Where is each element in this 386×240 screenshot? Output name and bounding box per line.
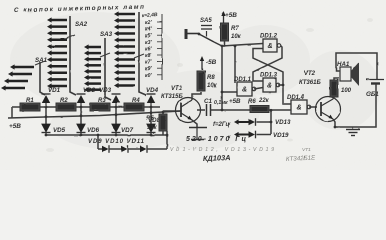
svg-text:&: & <box>242 87 247 94</box>
svg-text:520-1070 Гц: 520-1070 Гц <box>186 136 246 143</box>
wire: DD1.2 out to DD1.3 in <box>253 46 282 82</box>
diode VD19 <box>249 131 256 139</box>
switch SA3 pole wire <box>105 38 111 100</box>
svg-text:&: & <box>297 105 302 112</box>
svg-text:VD19: VD19 <box>273 132 289 139</box>
wire: junction down to C1-R6 node <box>221 46 223 110</box>
wire: R1-R2 segment <box>40 106 56 108</box>
input arrow to VD13 <box>234 119 249 124</box>
svg-text:22к: 22к <box>258 98 270 104</box>
resistor R2 <box>56 103 76 111</box>
wire: base lead VT1 <box>163 110 181 112</box>
diode VD1 <box>42 94 51 107</box>
wire: R1 to bus drop <box>11 107 13 118</box>
svg-text:R8: R8 <box>207 75 215 81</box>
wire: DD1.4 out to VT2 base <box>309 106 317 108</box>
diode VD4 <box>147 94 156 107</box>
svg-text:DD1.4: DD1.4 <box>287 95 305 101</box>
svg-text:100: 100 <box>341 88 352 94</box>
switch SA3 wiper tick <box>100 53 110 57</box>
logic gate DD1.1 <box>237 82 256 96</box>
diode VD9 <box>98 148 102 150</box>
svg-text:R4: R4 <box>132 98 140 104</box>
svg-text:КТ315Б: КТ315Б <box>161 94 183 100</box>
wire: VT1 collector node to C1 <box>197 109 205 111</box>
svg-text:f=2Гц: f=2Гц <box>213 122 230 128</box>
svg-text:DD1.2: DD1.2 <box>260 34 278 40</box>
diode VD7 <box>112 124 121 135</box>
wire: R9 top to speaker <box>334 78 339 80</box>
diode VD3 <box>112 94 121 107</box>
svg-text:к0': к0' <box>145 73 152 79</box>
diode VD10 <box>109 148 121 150</box>
svg-text:-5В: -5В <box>206 59 217 66</box>
svg-text:VD13: VD13 <box>275 119 291 126</box>
transistor VT1 <box>176 98 201 123</box>
svg-text:+5В: +5В <box>225 12 237 19</box>
svg-text:10к: 10к <box>231 34 242 40</box>
svg-text:VD7: VD7 <box>121 127 134 134</box>
svg-text:С1: С1 <box>204 98 212 105</box>
svg-text:&: & <box>267 83 272 90</box>
svg-text:КТ361Б: КТ361Б <box>299 80 321 86</box>
diode VD2 <box>77 94 86 107</box>
wire: VD19 to node <box>257 134 272 136</box>
wire: R7 bottom <box>222 41 225 46</box>
diode VD13 <box>249 118 256 126</box>
logic gate DD1.2 <box>263 39 281 52</box>
wire: VD11 to R5 branch <box>147 148 167 150</box>
svg-text:VD9 VD10 VD11: VD9 VD10 VD11 <box>88 139 145 145</box>
svg-text:VD1: VD1 <box>48 87 61 94</box>
push button SA5 <box>199 26 214 43</box>
svg-text:VD5: VD5 <box>53 127 66 134</box>
resistor R9 <box>330 80 338 97</box>
svg-text:к5': к5' <box>145 33 152 39</box>
wire: battery minus to emitter rail <box>335 84 376 127</box>
resistor R5 <box>159 114 167 131</box>
switch SA1 contact arrows <box>1 64 34 90</box>
svg-text:к6': к6' <box>145 46 152 52</box>
transistor VT2 <box>316 97 341 122</box>
input arrow to VD19 <box>234 132 249 137</box>
switch SA4 wiper tick <box>134 54 144 58</box>
speaker HA1 <box>340 62 359 86</box>
svg-text:51к: 51к <box>147 125 158 131</box>
wire: VD1 node drop to VD5 <box>45 107 47 124</box>
svg-text:SA2: SA2 <box>75 21 88 28</box>
svg-text:DD1.1: DD1.1 <box>234 77 252 83</box>
resistor R8 <box>197 71 205 91</box>
diode VD6 <box>77 124 86 135</box>
svg-text:VD6: VD6 <box>87 127 100 134</box>
wire: junction to DD1.2 input <box>222 44 263 47</box>
svg-text:DD1.3: DD1.3 <box>260 73 278 79</box>
wire: lower diode bus <box>46 134 167 136</box>
switch SA1 pole wire <box>40 62 45 95</box>
svg-text:к3': к3' <box>145 40 152 46</box>
wire: DD1.3 out to DD1.2 in <box>253 49 283 86</box>
switch SA3 contact arrows <box>84 44 101 92</box>
wire: VD4 node drop to VD8 <box>150 107 152 124</box>
battery GB1 <box>366 80 384 84</box>
wire: R6 to DD1.4 input <box>269 109 291 111</box>
resistor R3 <box>90 103 110 111</box>
switch SA1 wiper tick <box>35 61 45 65</box>
resistor R4 <box>124 103 144 111</box>
switch SA2 wiper tick <box>65 35 75 39</box>
svg-text:+5В: +5В <box>229 98 241 105</box>
svg-text:SA3: SA3 <box>100 31 113 38</box>
wire: DD1.3 out to DD1.4 in <box>283 85 291 104</box>
wire: DD1.1 out to DD1.3 in2 <box>254 88 263 90</box>
diode VD11 <box>128 148 140 150</box>
wire: SA5 to junction <box>214 42 222 46</box>
wire: up to R5 bottom / bus C <box>166 131 168 149</box>
capacitor C2 on VT1 emitter <box>192 120 197 127</box>
svg-text:R6: R6 <box>248 99 256 105</box>
wire: C1 to R6 <box>211 109 251 111</box>
svg-text:VD2: VD2 <box>83 87 96 94</box>
resistor R6 <box>250 106 269 113</box>
svg-text:0,1мк: 0,1мк <box>214 100 228 106</box>
wire: VT1 collector to R8 <box>192 92 201 100</box>
svg-text:R2: R2 <box>60 98 68 104</box>
terminal bracket line <box>161 14 163 80</box>
svg-text:R5: R5 <box>146 116 154 122</box>
diode VD5 <box>42 124 51 135</box>
input terminal bar <box>186 29 199 39</box>
logic gate DD1.4 <box>291 100 311 114</box>
svg-text:R3: R3 <box>98 98 106 104</box>
wire: VD3 node drop to VD7 <box>115 107 117 124</box>
wire: VT2 collector to R9 <box>333 97 334 99</box>
wire: VT2 emitter down <box>333 119 335 127</box>
svg-text:к2': к2' <box>145 20 152 26</box>
diode VD8 <box>147 124 156 135</box>
logic gate DD1.3 <box>263 78 280 92</box>
resistor R1 <box>20 103 40 111</box>
svg-text:к7': к7' <box>145 60 152 66</box>
switch SA2 pole wire <box>70 16 76 95</box>
svg-text:VT1: VT1 <box>302 147 311 153</box>
wire: R4 right lead <box>144 106 160 108</box>
svg-text:+5В: +5В <box>9 123 21 130</box>
svg-text:10к: 10к <box>207 83 218 89</box>
svg-text:VT1: VT1 <box>171 86 183 92</box>
resistor R7 <box>221 23 229 41</box>
wire: VD13 to node <box>257 121 272 123</box>
wire: drop to DD1.1 input <box>234 46 236 83</box>
wire: base node to R5 <box>162 111 164 114</box>
wire: R3-R4 segment <box>110 106 124 108</box>
power arrow +5V <box>221 11 225 23</box>
svg-text:к4': к4' <box>145 27 152 33</box>
svg-text:к9': к9' <box>145 66 152 72</box>
wire: R2-R3 segment <box>76 106 90 108</box>
power arrow -5V <box>200 56 204 70</box>
wire: speaker top to battery <box>336 53 377 79</box>
switch SA4 pole wire <box>139 12 146 95</box>
wire: R5 bottom to bus <box>162 131 164 135</box>
svg-text:R1: R1 <box>26 98 34 104</box>
switch SA4 contact arrows <box>114 11 135 88</box>
svg-text:&: & <box>268 43 273 50</box>
svg-text:SA5: SA5 <box>200 18 212 24</box>
wire: drop to VD13/VD19 <box>270 110 272 134</box>
svg-text:GБ1: GБ1 <box>366 91 379 98</box>
svg-text:R7: R7 <box>231 26 239 32</box>
wire: +5V bus to VT1 base <box>8 111 181 118</box>
svg-text:к8': к8' <box>145 53 152 59</box>
svg-text:КД103А: КД103А <box>203 153 231 163</box>
svg-text:к≈2,4В: к≈2,4В <box>142 12 159 19</box>
wire: DD1.1 second input <box>222 91 237 93</box>
wire: drop to series diodes VD9-VD11 <box>97 135 99 149</box>
svg-text:VD4: VD4 <box>146 87 159 94</box>
wire: VD2 node drop to VD6 <box>80 107 82 124</box>
terminal pin labels column <box>145 20 162 79</box>
ground <box>346 127 360 136</box>
switch SA2 contact arrows <box>47 17 67 88</box>
capacitor C1 <box>207 104 211 116</box>
svg-text:VD3: VD3 <box>99 87 112 94</box>
svg-text:VT2: VT2 <box>304 71 316 77</box>
wire: R1 left lead <box>12 106 20 108</box>
